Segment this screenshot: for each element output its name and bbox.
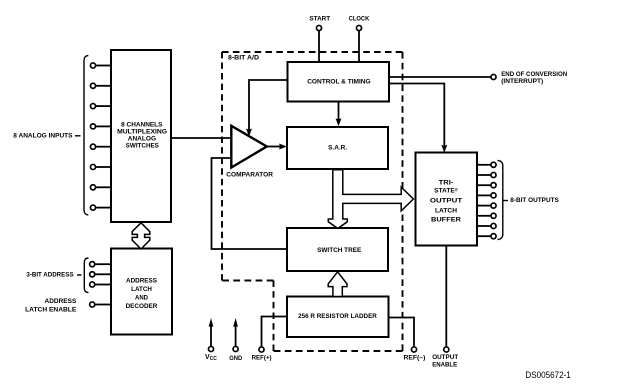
svg-text:START: START (309, 16, 331, 23)
svg-text:SWITCHES: SWITCHES (126, 143, 159, 150)
svg-text:ADDRESS: ADDRESS (45, 298, 77, 305)
svg-text:ADDRESS: ADDRESS (126, 278, 158, 285)
svg-text:LATCH ENABLE: LATCH ENABLE (25, 307, 77, 314)
svg-text:CONTROL & TIMING: CONTROL & TIMING (307, 78, 370, 85)
svg-text:OUTPUT: OUTPUT (432, 354, 459, 361)
svg-text:256 R RESISTOR LADDER: 256 R RESISTOR LADDER (298, 313, 377, 320)
svg-text:8-BIT OUTPUTS: 8-BIT OUTPUTS (510, 197, 559, 204)
svg-text:DECODER: DECODER (126, 303, 158, 310)
svg-text:LATCH: LATCH (435, 207, 457, 214)
svg-text:GND: GND (229, 355, 242, 362)
svg-text:3-BIT ADDRESS: 3-BIT ADDRESS (26, 272, 74, 279)
svg-text:LATCH: LATCH (131, 286, 152, 293)
svg-text:SWITCH TREE: SWITCH TREE (317, 247, 362, 254)
svg-text:OUTPUT: OUTPUT (430, 198, 462, 205)
svg-text:REF(–): REF(–) (403, 355, 425, 362)
svg-text:S.A.R.: S.A.R. (328, 145, 347, 152)
svg-text:8 ANALOG INPUTS: 8 ANALOG INPUTS (13, 133, 73, 140)
svg-text:CLOCK: CLOCK (349, 16, 370, 23)
svg-text:8 CHANNELS: 8 CHANNELS (121, 122, 162, 129)
svg-text:TRI-: TRI- (439, 180, 454, 187)
svg-text:BUFFER: BUFFER (431, 217, 461, 224)
svg-text:REF(+): REF(+) (252, 355, 272, 362)
svg-text:ENABLE: ENABLE (432, 362, 457, 369)
svg-text:COMPARATOR: COMPARATOR (226, 172, 273, 179)
svg-text:(INTERRUPT): (INTERRUPT) (501, 78, 543, 85)
svg-text:VCC: VCC (205, 354, 217, 362)
svg-text:AND: AND (135, 295, 148, 302)
svg-text:MULTIPLEXING: MULTIPLEXING (117, 129, 167, 136)
svg-text:DS005672-1: DS005672-1 (525, 370, 570, 380)
svg-text:ANALOG: ANALOG (128, 136, 156, 143)
svg-text:8-BIT A/D: 8-BIT A/D (228, 55, 259, 62)
